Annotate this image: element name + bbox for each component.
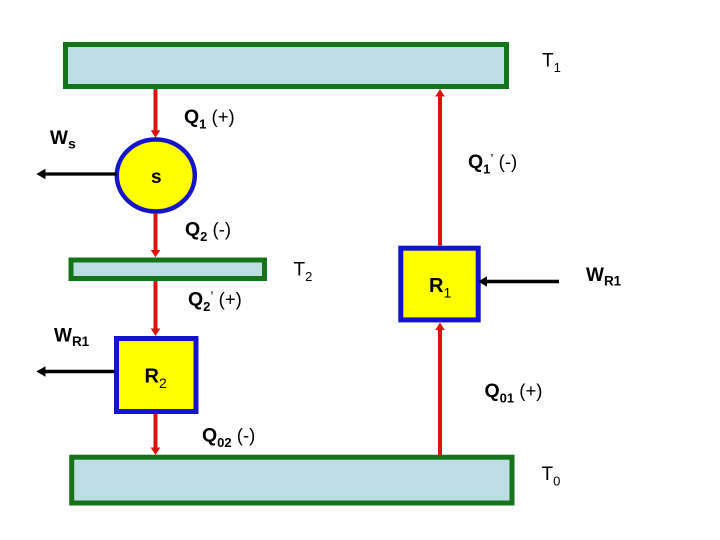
reservoir T2 bar — [71, 260, 265, 279]
work arrow WR1 right: black arrow into R1 from the right — [478, 276, 559, 286]
refrigerator R2 square — [117, 339, 197, 412]
wire Q2': red arrow from T2 bar down to R2 — [151, 281, 161, 336]
wire Q2: red arrow from S down to T2 bar — [151, 214, 161, 258]
wire Q1': red arrow from R1 up to T1 bar — [435, 89, 445, 246]
wire Q01: red arrow from T0 bar up to R1 — [435, 323, 445, 456]
work arrow Ws: black arrow from S to the left — [36, 169, 116, 179]
wire Q02: red arrow from R2 down to T0 bar — [151, 414, 161, 455]
work arrow WR1 left: black arrow from R2 to the left — [36, 366, 114, 376]
refrigerator R1 square — [401, 248, 478, 320]
svg-text:s: s — [151, 167, 162, 188]
wire Q1: red arrow from T1 bar down to engine S — [151, 89, 161, 138]
engine S circle — [117, 140, 195, 212]
reservoir T1 bar — [66, 45, 507, 87]
reservoir T0 bar — [72, 457, 512, 503]
